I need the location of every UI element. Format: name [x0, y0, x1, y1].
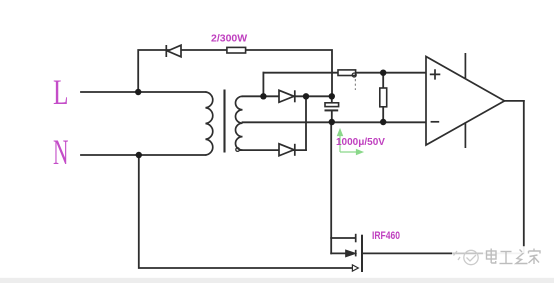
wire riser secondary-top to sense line: [262, 73, 264, 97]
capacitor C1 1000u/50V: [325, 103, 339, 111]
svg-text:IRF460: IRF460: [372, 230, 400, 242]
bottom gray strip: [0, 278, 554, 283]
node secondary-top tap: [260, 93, 266, 99]
svg-text:1000μ/50V: 1000μ/50V: [336, 137, 385, 148]
watermark background: [452, 246, 545, 270]
svg-text:2/300W: 2/300W: [211, 33, 247, 45]
wire L line: [81, 91, 206, 93]
diode D2 (secondary top, pointing right): [279, 90, 295, 102]
wire bottom: N junction down and across to MOSFET source: [139, 155, 353, 268]
watermark text gong: [500, 252, 513, 264]
op-amp minus marker: [431, 121, 440, 123]
MOSFET Q1 IRF460: [346, 234, 362, 272]
transformer primary winding: [206, 92, 213, 155]
wire center-tap line to op-amp - input: [243, 121, 427, 123]
source arrowhead: [352, 265, 358, 271]
wire op-amp output: [505, 100, 524, 102]
node rectifier output: [303, 93, 309, 99]
watermark logo: [454, 250, 479, 264]
wire drain to right rail: [363, 252, 524, 254]
watermark text zhi: [516, 250, 528, 264]
wire secondary bottom: [240, 149, 306, 151]
wire gate riser: [330, 122, 332, 253]
trimmer resistor RP: [338, 70, 356, 90]
node center-tap / cap minus: [329, 119, 335, 125]
wire capacitor stubs: [331, 96, 333, 122]
gate bar lower: [355, 250, 357, 257]
green UCS marker: [338, 130, 363, 155]
node L junction: [135, 89, 141, 95]
node N junction: [136, 152, 142, 158]
svg-text:N: N: [53, 132, 69, 172]
op-amp plus marker: [430, 69, 441, 79]
gate bar upper: [355, 234, 357, 243]
node + input / R2 top: [380, 70, 386, 76]
resistor R2 (vertical, to - input): [380, 73, 387, 123]
op-amp V- pin: [464, 122, 466, 148]
wire top-branch: L junction up, across top, down to DC node: [138, 50, 332, 96]
transformer core: [223, 90, 225, 153]
wire N line: [81, 154, 206, 156]
resistor R1 2/300W: [227, 47, 246, 53]
watermark text jia: [529, 249, 541, 265]
wire sense line to op-amp + input: [263, 72, 426, 74]
body arrow: [346, 251, 355, 257]
wire secondary top: [243, 95, 332, 97]
node - input / R2 bottom: [380, 119, 386, 125]
op-amp V+ pin: [464, 53, 466, 78]
junction dots: [135, 70, 386, 159]
channel bar: [361, 235, 363, 272]
transformer secondary winding: [235, 96, 242, 150]
op-amp U1: [426, 53, 505, 148]
wire right rail up to op-amp output: [523, 101, 525, 254]
secondary end curl: [236, 148, 240, 152]
diode D3 (secondary bottom, pointing right): [279, 144, 295, 156]
wire gate stub lower: [331, 252, 347, 254]
wire diode D3 riser: [305, 96, 307, 150]
svg-text:L: L: [53, 72, 69, 112]
watermark text dian: [487, 249, 497, 264]
node DC+: [329, 93, 335, 99]
diode D1 (top branch, pointing left): [166, 45, 181, 57]
wire gate stub upper: [331, 237, 355, 239]
